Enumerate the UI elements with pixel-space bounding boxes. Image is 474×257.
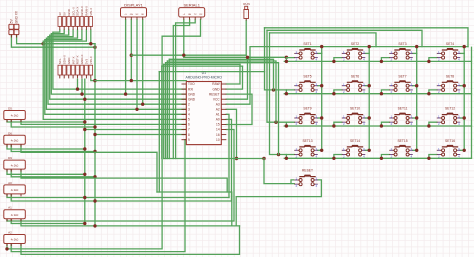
svg-text:5V: 5V <box>62 12 66 16</box>
resistor R5 pack <box>4 210 26 219</box>
junction SET15 riser <box>415 149 418 152</box>
pushbutton SET6 <box>342 74 365 94</box>
pushbutton SET7 <box>389 74 412 94</box>
wire U1 GND riser <box>226 66 242 89</box>
op-amp U1 ARDUINO-PRO-MICRO body <box>186 82 221 145</box>
pushbutton SET11 <box>389 107 412 127</box>
svg-text:GND: GND <box>188 97 196 101</box>
wire JP1 pin8 <box>90 30 92 44</box>
svg-text:ARDUINO-PRO-MICRO: ARDUINO-PRO-MICRO <box>186 76 223 80</box>
wire rail y71 <box>159 71 264 73</box>
svg-text:3: 3 <box>188 108 190 112</box>
junction SET7 riser <box>415 84 418 87</box>
junction R4a <box>83 196 86 199</box>
wire SET13 right tap <box>318 149 322 151</box>
wire DISPLAY1 pin2 drop <box>130 20 132 81</box>
wire SET3 right tap <box>413 52 417 54</box>
wire 5V rail <box>11 35 95 47</box>
wire R1 b <box>11 120 95 128</box>
svg-text:SDA-X: SDA-X <box>76 7 80 16</box>
junction column4 riser top <box>463 45 466 48</box>
wire row2 rail <box>284 93 471 95</box>
wire SET5 left drop <box>286 90 294 94</box>
wire rail to U1 pin7 <box>85 129 187 131</box>
svg-text:7: 7 <box>188 128 190 132</box>
svg-text:5: 5 <box>188 118 190 122</box>
resistor R3 pack <box>4 160 26 169</box>
svg-text:DISPLAY1: DISPLAY1 <box>124 2 144 7</box>
svg-text:3V: 3V <box>58 12 62 16</box>
wire SET1 right tap <box>318 52 322 54</box>
pushbutton SET15 <box>389 139 412 159</box>
svg-text:10: 10 <box>216 138 220 142</box>
svg-text:GND XX: GND XX <box>15 10 19 23</box>
wire SET8 left drop <box>429 90 437 94</box>
junction SET6 rail <box>332 92 335 95</box>
junction rail x95/134 <box>93 133 96 136</box>
wire right edge vertical <box>471 47 473 159</box>
svg-text:D6: D6 <box>8 131 12 135</box>
junction SET5 rail <box>285 92 288 95</box>
svg-text:INT-X: INT-X <box>71 57 75 65</box>
wire nest rail d <box>164 63 240 65</box>
wire R5 a drop <box>6 219 8 221</box>
wire R3 a <box>7 169 85 174</box>
wire U1 pin14 run <box>7 130 234 222</box>
wire header JP1 pin7 to U1 <box>43 30 186 119</box>
svg-text:A2: A2 <box>8 231 12 235</box>
junction SET2 rail <box>332 60 335 63</box>
wire SET12 right tap <box>460 117 464 119</box>
junction row4 feed <box>277 153 280 156</box>
wire SET11 left drop <box>381 122 389 126</box>
svg-text:GND-X: GND-X <box>80 6 84 16</box>
wire R6 b to U1 pin9 <box>11 140 186 252</box>
wire U1 RESET link <box>226 94 252 124</box>
junction DISPLAY1 pin2/rail80 <box>130 79 133 82</box>
svg-text:A0: A0 <box>216 118 220 122</box>
wire SET16 left drop <box>429 155 437 159</box>
pushbutton SET10 <box>342 107 365 127</box>
wire SET9 right tap <box>318 117 322 119</box>
wire R3 c run <box>21 169 227 192</box>
junction SET12 rail <box>427 124 430 127</box>
wire header JP2 pin6 drop <box>81 79 83 94</box>
pushbutton SET14 <box>342 139 365 159</box>
pushbutton SET3 <box>389 42 412 62</box>
svg-text:U1: U1 <box>202 71 206 75</box>
svg-text:SET13: SET13 <box>302 139 312 143</box>
wire U1 VCC riser to row1 <box>226 57 247 99</box>
svg-text:D9: D9 <box>8 156 12 160</box>
wire DISPLAY1 pin1 drop <box>125 20 127 95</box>
svg-text:3V3: 3V3 <box>85 59 89 65</box>
svg-text:4x 2kΩ: 4x 2kΩ <box>11 115 19 118</box>
junction JP2 pin6 <box>80 92 83 95</box>
junction JP1 pin8/GND <box>89 42 92 45</box>
svg-text:GN: GN <box>130 14 134 16</box>
svg-text:RESET: RESET <box>302 169 313 173</box>
resistor R6 pack <box>4 235 26 244</box>
wire SERIAL1 pin3 run <box>176 20 196 159</box>
wire SET15 right tap <box>413 149 417 151</box>
svg-text:VIN-X: VIN-X <box>89 8 93 16</box>
svg-text:SDA-X: SDA-X <box>62 55 66 64</box>
junction R2b <box>93 150 96 153</box>
junction SET8 riser <box>463 84 466 87</box>
connector J1 (5V/GND) <box>9 24 19 34</box>
svg-text:SET3: SET3 <box>398 42 406 46</box>
wire U1 A1 drop <box>226 114 229 197</box>
wire SET4 right tap <box>460 52 464 54</box>
svg-text:14: 14 <box>216 128 220 132</box>
wire R1 a <box>7 120 85 123</box>
wire U1 A2 drop <box>226 109 236 158</box>
svg-text:4x 2kΩ: 4x 2kΩ <box>11 214 19 217</box>
wire SERIAL1 pin1 drop <box>183 20 185 58</box>
junction R2a <box>83 147 86 150</box>
junction DISPLAY1 pin1/GND rail <box>124 92 127 95</box>
junction GND/bundle <box>42 42 45 45</box>
wire R2 c run <box>21 144 157 192</box>
junction rail x85/129 <box>83 128 86 131</box>
wire bottom run <box>21 226 240 255</box>
wire rail y80 to U1 <box>95 80 186 82</box>
wire bus1 <box>265 28 469 47</box>
junction SET6 riser <box>368 84 371 87</box>
junction SET10 riser <box>368 116 371 119</box>
wire bundle vertical e4 <box>163 64 165 158</box>
wire SET10 right tap <box>365 117 369 119</box>
wire nest rail row3 <box>167 61 276 122</box>
junction DISPLAY1 pin3 <box>135 108 138 111</box>
svg-text:SCL: SCL <box>58 58 62 64</box>
svg-text:RST-X: RST-X <box>76 55 80 64</box>
wire vertical rail x85 from JP2 pin7 <box>84 79 86 223</box>
junction A2 tee <box>235 157 238 160</box>
junction R3b <box>93 175 96 178</box>
junction VCC/row1 <box>246 56 249 59</box>
junction JP2 pin8/rail <box>93 79 96 82</box>
wire SET6 right tap <box>365 85 369 87</box>
svg-text:SC: SC <box>136 14 139 16</box>
pins DISPLAY1 <box>126 17 143 20</box>
pin header JP1 boxes <box>58 17 93 27</box>
wire R4 b <box>11 194 231 201</box>
svg-text:GND: GND <box>213 87 221 91</box>
junction SET10 rail <box>332 124 335 127</box>
wire SET1 left drop <box>286 58 294 62</box>
svg-text:GND: GND <box>67 57 71 65</box>
wire rail to U1 pin8 <box>95 134 186 136</box>
pushbutton SET16 <box>437 139 460 159</box>
svg-text:SET14: SET14 <box>350 139 360 143</box>
svg-text:GND: GND <box>67 8 71 16</box>
wire R4 a <box>7 194 229 198</box>
wire SET7 left drop <box>381 90 389 94</box>
wire nest rail e <box>162 65 243 67</box>
svg-text:SET8: SET8 <box>446 74 454 78</box>
wire nest rail row2 <box>169 59 273 90</box>
svg-text:SET4: SET4 <box>446 42 454 46</box>
junction R5b <box>83 222 86 225</box>
svg-text:SERIAL1: SERIAL1 <box>183 2 200 7</box>
junction 5V/vertical rail <box>93 46 96 49</box>
wire SET12 left drop <box>429 122 437 126</box>
svg-text:VCC: VCC <box>213 97 220 101</box>
resistor R1 pack <box>4 111 26 120</box>
junction SET5 riser <box>320 84 323 87</box>
wire R1 c to U1 pin6 <box>21 120 186 125</box>
junction SET9 rail <box>285 124 288 127</box>
svg-text:A1: A1 <box>8 206 12 210</box>
junction JP2 pin5 <box>76 87 79 90</box>
wire row1 rail feed <box>184 56 287 58</box>
svg-text:RUN: RUN <box>243 2 250 6</box>
junction R6 a <box>5 247 8 250</box>
wire R6 a drop <box>6 244 8 249</box>
svg-text:SET2: SET2 <box>351 42 359 46</box>
junction SET13 riser <box>320 149 323 152</box>
svg-text:8: 8 <box>188 133 190 137</box>
junction R1b <box>93 125 96 128</box>
junction column2 riser top <box>368 45 371 48</box>
pins R1 <box>7 120 21 123</box>
connector RUN <box>244 10 249 19</box>
wire rail y225 run <box>95 225 240 227</box>
wire R3 b <box>11 169 95 177</box>
wire busV2 to row3 <box>267 30 286 122</box>
pins R6 <box>7 244 21 247</box>
wire row1 rail <box>284 60 471 62</box>
wire R2 b <box>11 144 95 151</box>
junction SET1 rail <box>285 60 288 63</box>
junction SERIAL1 pin1/rail55 <box>182 54 185 57</box>
svg-text:SET15: SET15 <box>397 139 407 143</box>
junction SET14 rail <box>332 157 335 160</box>
wire SERIAL1 pin4 long run <box>7 20 201 249</box>
junction SET3 rail <box>380 60 383 63</box>
svg-text:SET1: SET1 <box>303 42 311 46</box>
svg-text:2: 2 <box>188 102 190 106</box>
pushbutton SET1 <box>294 42 317 62</box>
wire header JP1 pin1 to U1 <box>53 30 186 89</box>
svg-text:SET9: SET9 <box>303 107 311 111</box>
wire column1 riser <box>321 47 323 151</box>
wire U1 RAW riser <box>226 64 240 84</box>
wire bundle vertical e5 <box>161 66 163 158</box>
svg-text:SET16: SET16 <box>445 139 455 143</box>
wire row3 rail <box>284 125 471 127</box>
pushbutton RESET <box>294 169 317 189</box>
junction SET11 riser <box>415 116 418 119</box>
wire header JP1 pin2 to U1 <box>51 30 186 94</box>
svg-text:GND-X: GND-X <box>80 55 84 65</box>
wire vertical rail x95 <box>94 44 96 226</box>
wire header JP1 pin6 to U1 <box>45 30 187 114</box>
wire RESET left drop <box>291 180 294 184</box>
wire GND rail <box>17 35 95 44</box>
wire RESET right run <box>236 180 321 226</box>
junction rail158/RESET feed <box>262 157 265 160</box>
wire busV3 to row4 <box>270 33 287 155</box>
junction SET12 riser <box>463 116 466 119</box>
pins U1 <box>182 84 227 140</box>
junction SET8 rail <box>427 92 430 95</box>
wire SET8 right tap <box>460 85 464 87</box>
wire SET13 left drop <box>286 155 294 159</box>
svg-text:SET6: SET6 <box>351 74 359 78</box>
junction R4b <box>93 199 96 202</box>
wire header JP1 pin5 to U1 <box>46 30 186 109</box>
pins SERIAL1 <box>184 17 201 20</box>
wire column4 riser <box>463 47 465 151</box>
wire column3 riser <box>416 47 418 151</box>
wire SET16 right tap <box>460 149 464 151</box>
wire rail y55 <box>131 54 246 56</box>
junction row1 feed <box>285 56 288 59</box>
svg-text:SD: SD <box>141 14 144 16</box>
svg-text:SET10: SET10 <box>350 107 360 111</box>
wire rail y192 run <box>157 192 232 226</box>
wire RUN drop <box>245 21 247 56</box>
wire R5 b <box>11 219 85 224</box>
junction SET4 rail <box>427 60 430 63</box>
junction column1 riser top <box>320 45 323 48</box>
wire R2 a <box>7 144 85 149</box>
wire bus3 <box>270 33 377 47</box>
wire SET2 left drop <box>334 58 342 62</box>
junction row3 feed <box>274 121 277 124</box>
wire bundle vertical e3 <box>165 63 167 159</box>
pushbutton SET8 <box>437 74 460 94</box>
svg-text:6: 6 <box>188 123 190 127</box>
junction SET15 rail <box>380 157 383 160</box>
svg-text:A1: A1 <box>216 113 220 117</box>
wire SET4 left drop <box>429 58 437 62</box>
junction DISPLAY1 pin4 <box>141 103 144 106</box>
svg-text:9: 9 <box>188 138 190 142</box>
wire SET11 right tap <box>413 117 417 119</box>
wire header JP1 pin3 to U1 <box>50 30 187 99</box>
pins R4 <box>7 194 21 197</box>
junction SET11 rail <box>380 124 383 127</box>
junction SET7 rail <box>380 92 383 95</box>
svg-text:A3: A3 <box>216 102 220 106</box>
junction SET16 rail <box>427 157 430 160</box>
junction R3a <box>83 173 86 176</box>
wire busV1 to row2 <box>265 28 287 90</box>
svg-text:D5: D5 <box>8 107 12 111</box>
svg-text:SET7: SET7 <box>398 74 406 78</box>
svg-text:4: 4 <box>188 113 190 117</box>
pin header JP2 boxes <box>58 65 93 75</box>
junction R1a <box>83 120 86 123</box>
resistor R4 pack <box>4 185 26 194</box>
junction DISPLAY1 pin2/rail55 <box>130 54 133 57</box>
wire header JP1 pin4 to U1 <box>48 30 186 104</box>
svg-text:RXI: RXI <box>188 87 193 91</box>
wire R5 c <box>21 219 95 226</box>
wire SERIAL1 pin2 run <box>173 20 189 159</box>
junction R5c/rail95 <box>93 224 96 227</box>
wire DISPLAY1 pin3 drop <box>136 20 138 110</box>
svg-text:RESET: RESET <box>209 92 220 96</box>
wire SET9 left drop <box>286 122 294 126</box>
svg-text:15: 15 <box>216 123 220 127</box>
pushbutton SET13 <box>294 139 317 159</box>
wire column2 riser <box>368 47 370 151</box>
svg-text:SET5: SET5 <box>303 74 311 78</box>
wire bundle vertical e2 <box>166 61 168 159</box>
svg-text:4x 2kΩ: 4x 2kΩ <box>11 164 19 167</box>
junction SET13 rail <box>285 157 288 160</box>
wire bundle vertical f <box>158 72 160 192</box>
wire SET7 right tap <box>413 85 417 87</box>
wire column top line from U1 A3 <box>226 47 468 105</box>
wire bus2 <box>267 30 422 46</box>
pins R3 <box>7 169 21 172</box>
wire U1 A0 drop <box>226 119 231 201</box>
wire SET14 right tap <box>365 149 369 151</box>
svg-text:SCL-X: SCL-X <box>71 7 75 16</box>
svg-text:GN: GN <box>188 14 192 16</box>
wire SET15 left drop <box>381 155 389 159</box>
junction row2 feed <box>272 88 275 91</box>
wire nest rail row4 <box>166 63 279 155</box>
wire rail y158 <box>164 158 264 160</box>
svg-text:VIN-X: VIN-X <box>89 56 93 64</box>
pins R2 <box>7 144 21 147</box>
wire bundle vertical e1 <box>168 59 170 158</box>
wire SET2 right tap <box>365 52 369 54</box>
connector SERIAL1 <box>179 8 205 17</box>
resistor R2 pack <box>4 135 26 144</box>
svg-text:4x 2kΩ: 4x 2kΩ <box>11 140 19 143</box>
wire row4 rail <box>284 157 471 159</box>
svg-text:TXO: TXO <box>188 82 195 86</box>
junction SET9 riser <box>320 116 323 119</box>
connector DISPLAY1 <box>121 8 147 17</box>
pushbutton SET2 <box>342 42 365 62</box>
svg-text:A0: A0 <box>8 181 12 185</box>
wire SET5 right tap <box>318 85 322 87</box>
svg-text:GND: GND <box>188 92 196 96</box>
svg-text:A2: A2 <box>216 108 220 112</box>
wire SET3 left drop <box>381 58 389 62</box>
junction SET14 riser <box>368 149 371 152</box>
pushbutton SET9 <box>294 107 317 127</box>
pushbutton SET5 <box>294 74 317 94</box>
pins R5 <box>7 219 21 222</box>
wire SET14 left drop <box>334 155 342 159</box>
wire JP2 pin8 <box>91 79 95 80</box>
svg-text:4x 2kΩ: 4x 2kΩ <box>11 189 19 192</box>
svg-text:SET11: SET11 <box>398 107 408 111</box>
wire header JP2 pin5 drop <box>77 79 79 89</box>
pushbutton SET4 <box>437 42 460 62</box>
junction rail x85/rail3 <box>83 98 86 101</box>
junction column3 riser top <box>415 45 418 48</box>
svg-text:4x 2kΩ: 4x 2kΩ <box>11 239 19 242</box>
svg-text:RAW: RAW <box>212 82 219 86</box>
wire SET6 left drop <box>334 90 342 94</box>
junction SET16 riser <box>463 149 466 152</box>
svg-text:SET12: SET12 <box>445 107 455 111</box>
wire SET10 left drop <box>334 122 342 126</box>
wire RESET feed <box>264 159 294 184</box>
svg-text:RAW-X: RAW-X <box>85 6 89 16</box>
